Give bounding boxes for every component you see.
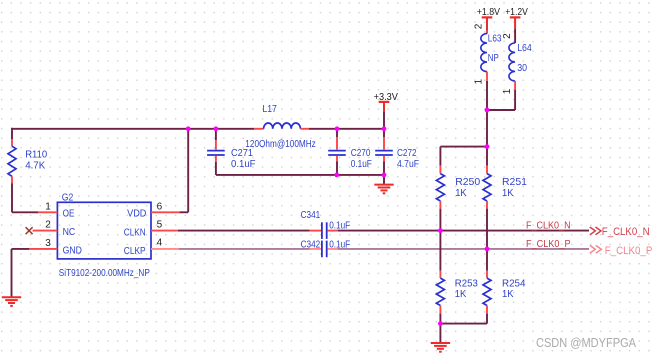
svg-text:1: 1 — [474, 79, 485, 85]
wire: branch to R250 column — [440, 147, 487, 166]
port F_CLK0_P — [590, 245, 652, 257]
watermark — [536, 335, 636, 350]
svg-text:1: 1 — [45, 201, 51, 212]
svg-text:2: 2 — [474, 23, 485, 29]
chip G2 part number label — [59, 267, 150, 279]
inductor L17 — [245, 103, 315, 150]
chip G2 pin 4 CLKP — [124, 238, 179, 258]
svg-text:30: 30 — [517, 62, 527, 74]
junction ground node below R253 — [438, 321, 443, 326]
wire: CLKN net, pin 5 to C341 — [178, 230, 310, 232]
svg-text:C341: C341 — [301, 209, 321, 221]
capacitor C342 — [301, 238, 351, 257]
svg-text:L63: L63 — [488, 33, 502, 45]
wire: CLKN net, C341 to port — [338, 230, 589, 232]
svg-text:NC: NC — [63, 226, 76, 238]
wire: R254 bottom to ground node — [440, 314, 487, 324]
svg-text:L64: L64 — [517, 42, 532, 54]
svg-text:SiT9102-200.00MHz_NP: SiT9102-200.00MHz_NP — [59, 267, 150, 279]
svg-text:1K: 1K — [455, 288, 467, 300]
resistor R254 — [483, 271, 526, 314]
svg-text:OE: OE — [63, 208, 75, 220]
junction at C270 lower rail — [334, 173, 339, 178]
ground below lower rail — [374, 185, 393, 194]
svg-text:2: 2 — [502, 33, 513, 39]
junction R250 on CLKN — [438, 228, 443, 233]
svg-text:CLKP: CLKP — [124, 245, 146, 257]
svg-text:0.1uF: 0.1uF — [329, 220, 350, 232]
wire: C271 top stub — [215, 129, 217, 140]
net label F_CLK0_P — [526, 238, 571, 250]
power port +1.2V — [505, 6, 528, 28]
wire: CLKP net, pin 4 to C342 (dimmed) — [179, 248, 310, 250]
wire: pin 3 of G2 to ground — [12, 249, 30, 297]
inductor L63 pin 1 number — [474, 79, 485, 85]
svg-text:2: 2 — [45, 220, 51, 231]
chip G2 pin 1 OE — [38, 201, 74, 219]
wire: L63 bottom / VTT column upper — [486, 81, 488, 166]
junction R251 on CLKP — [485, 247, 490, 252]
svg-text:CLKN: CLKN — [124, 227, 146, 239]
svg-text:5: 5 — [157, 220, 163, 231]
svg-text:CSDN @MDYFPGA: CSDN @MDYFPGA — [536, 335, 636, 350]
svg-text:F_CLK0_P: F_CLK0_P — [526, 238, 571, 250]
svg-text:4.7K: 4.7K — [25, 159, 45, 171]
ground below R253/R254 — [431, 343, 450, 352]
resistor R251 — [483, 166, 527, 209]
wire: L64 upper link — [514, 29, 516, 43]
svg-text:4: 4 — [157, 238, 163, 249]
inductor L64 pin 2 number — [502, 33, 513, 39]
resistor R253 — [436, 271, 478, 314]
inductor L64 pin 1 number — [502, 88, 513, 94]
svg-text:0.1uF: 0.1uF — [329, 238, 350, 250]
svg-text:NP: NP — [488, 52, 499, 64]
svg-text:1K: 1K — [455, 187, 467, 199]
inductor L64 — [509, 42, 532, 90]
svg-text:0.1uF: 0.1uF — [231, 158, 256, 170]
wire: R250 bottom to R253 top (through CLKN junction) — [439, 209, 441, 271]
inductor L63 — [481, 30, 502, 81]
capacitor C272 — [375, 137, 419, 170]
svg-text:6: 6 — [157, 201, 163, 212]
wire: C272 bottom stub — [383, 162, 385, 175]
wire: CLKP net, C342 to port (dimmed) — [338, 248, 589, 250]
wire: C270 top stub — [336, 129, 338, 137]
wire: R251 bottom to R254 top (through CLKP junction) — [486, 209, 488, 271]
wire: L64 bottom to node — [487, 90, 515, 110]
svg-text:4.7uF: 4.7uF — [397, 158, 419, 170]
svg-text:3: 3 — [45, 238, 51, 249]
power port +3.3V — [374, 91, 398, 111]
capacitor C270 — [328, 137, 372, 170]
wire: R110 bottom to pin 1 of G2 — [12, 184, 38, 213]
svg-text:G2: G2 — [62, 191, 74, 203]
capacitor C341 — [301, 209, 351, 239]
wire: L63 upper link — [486, 29, 488, 34]
no-ERC cross at NC pin — [26, 227, 33, 234]
ground below G2 pin 3 — [2, 297, 21, 306]
wire: C272 top stub — [383, 129, 385, 137]
resistor R110 — [8, 139, 47, 183]
junction at C271 on rail — [214, 126, 219, 131]
chip G2 pin 3 GND — [29, 238, 82, 257]
wire: C271 bottom to lower rail — [216, 162, 337, 175]
port F_CLK0_N — [590, 226, 650, 238]
capacitor C271 — [207, 140, 255, 170]
svg-text:L17: L17 — [262, 103, 277, 115]
op chip G2 body — [57, 191, 151, 259]
svg-text:C342: C342 — [301, 238, 321, 250]
svg-text:VDD: VDD — [127, 208, 147, 220]
wire: ground stub below lower rail — [383, 175, 385, 185]
wire: top rail left segment — [12, 128, 254, 130]
chip G2 pin 2 NC — [33, 220, 76, 239]
wire: R110 top stub from rail — [11, 128, 13, 140]
wire: top rail right segment (L17 to +3.3V node) — [309, 128, 384, 130]
junction at C270 on rail — [335, 126, 340, 131]
wire: +3.3V stem lower part — [383, 111, 385, 129]
net label F_CLK0_N — [526, 219, 571, 231]
wire: C270 bottom stub — [336, 162, 338, 175]
junction VTT branch node — [485, 144, 490, 149]
junction L63/L64 node — [485, 108, 490, 113]
svg-text:F_CLK0_N: F_CLK0_N — [526, 219, 571, 231]
svg-text:GND: GND — [63, 245, 83, 257]
junction at C272/+3.3V on rail — [382, 126, 387, 131]
chip G2 pin 5 CLKN — [124, 220, 178, 239]
chip G2 pin 6 VDD — [127, 201, 179, 219]
inductor L63 pin 2 number — [474, 23, 485, 29]
svg-text:120Ohm@100MHz: 120Ohm@100MHz — [245, 138, 315, 150]
svg-text:1K: 1K — [502, 288, 514, 300]
junction at C272 lower rail — [382, 173, 387, 178]
svg-text:F_CLK0_N: F_CLK0_N — [602, 226, 650, 238]
svg-text:1K: 1K — [502, 187, 514, 199]
power port +1.8V — [477, 6, 500, 28]
svg-text:0.1uF: 0.1uF — [351, 158, 372, 170]
wire: VDD riser from pin 6 to rail — [179, 129, 188, 213]
wire: R253 bottom to ground — [439, 314, 441, 343]
wire: lower rail C270-C272 — [337, 174, 384, 176]
svg-text:F_CLK0_P: F_CLK0_P — [605, 245, 652, 257]
junction at VDD riser on rail — [186, 126, 191, 131]
resistor R250 — [436, 166, 480, 209]
svg-text:1: 1 — [502, 88, 513, 94]
